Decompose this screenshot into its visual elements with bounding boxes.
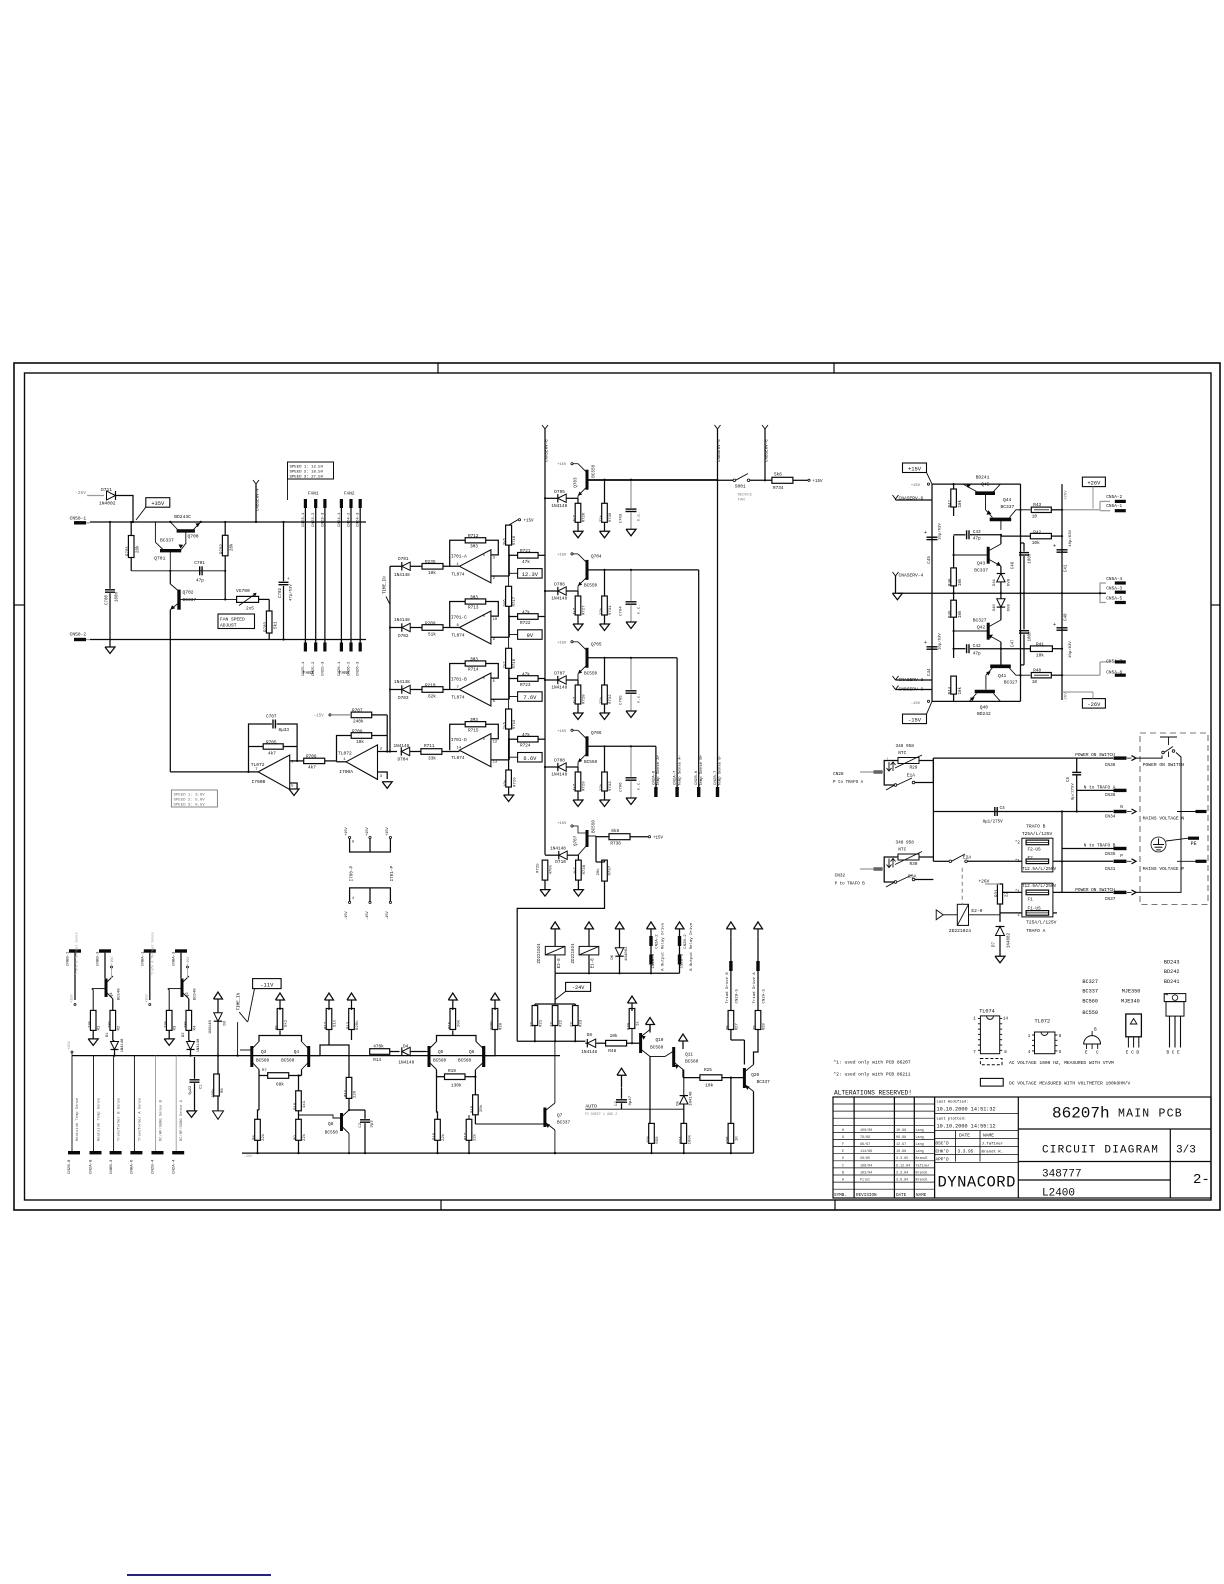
svg-text:Temp Sense B+: Temp Sense B+ (700, 754, 704, 786)
svg-text:FAN SPEED: FAN SPEED (220, 617, 245, 623)
svg-text:D40: D40 (993, 604, 997, 612)
-15V box (903, 714, 927, 724)
svg-text:POWER ON SWITCH: POWER ON SWITCH (1075, 888, 1115, 893)
svg-text:100n: 100n (1029, 553, 1033, 564)
svg-text:8μ/275V: 8μ/275V (1071, 783, 1076, 800)
svg-text:n.c.: n.c. (638, 693, 642, 703)
legend AC voltage box (980, 1059, 1002, 1065)
wire triac to Q20 (731, 1039, 737, 1041)
svg-text:MJE340: MJE340 (1121, 999, 1140, 1005)
svg-text:C3: C3 (615, 1101, 619, 1106)
svg-text:R22: R22 (560, 1019, 564, 1027)
svg-text:-15V: -15V (314, 715, 325, 719)
svg-text:DC VOLTAGE MEASURED WITH VOLTM: DC VOLTAGE MEASURED WITH VOLTMETER 100kO… (1009, 1081, 1131, 1087)
svg-text:R7: R7 (262, 1069, 267, 1073)
svg-text:BC550: BC550 (584, 583, 598, 588)
diode D6 1N4002 (615, 922, 624, 929)
fan line CN24-1/CN26-1 (340, 500, 342, 651)
svg-text:T12.5A/L/250V: T12.5A/L/250V (1022, 867, 1057, 872)
svg-text:CN2A-3: CN2A-3 (652, 953, 656, 968)
svg-text:CN8A-1: CN8A-1 (142, 951, 146, 966)
wire Q6 collector (484, 1045, 495, 1056)
svg-text:C702: C702 (279, 587, 283, 598)
svg-text:+15V: +15V (557, 730, 567, 734)
+15V arrow above Q11 (679, 1034, 688, 1041)
svg-text:20k: 20k (136, 545, 141, 553)
svg-text:CN58-1: CN58-1 (70, 515, 87, 521)
svg-text:CN5A-1: CN5A-1 (1106, 504, 1122, 509)
svg-text:TL072: TL072 (338, 750, 352, 756)
svg-text:E1-0: E1-0 (592, 958, 596, 969)
svg-text:CN5A-2: CN5A-2 (1106, 495, 1122, 500)
svg-text:6V8: 6V8 (1008, 604, 1012, 612)
capacitor C45 (927, 536, 938, 538)
ground C705 (626, 711, 636, 718)
svg-text:0μ47: 0μ47 (629, 1095, 633, 1105)
resistor R9 22k (296, 1119, 302, 1140)
svg-text:CN5A-3: CN5A-3 (1106, 586, 1122, 591)
svg-text:POWER ON SWITCH: POWER ON SWITCH (1143, 762, 1185, 768)
svg-text:4k7: 4k7 (268, 751, 276, 756)
resistor R22 22 (552, 1006, 558, 1026)
svg-text:R703: R703 (265, 621, 269, 632)
wire stage chain R716-R719 (508, 545, 510, 586)
svg-text:D701: D701 (398, 557, 409, 562)
svg-text:R1: R1 (98, 1025, 102, 1030)
svg-text:3k6: 3k6 (502, 537, 507, 545)
svg-text:D702: D702 (398, 634, 409, 639)
svg-text:TL074: TL074 (979, 1009, 995, 1015)
resistor R731 22k (602, 596, 608, 615)
capacitor C705 n.c. (626, 690, 637, 692)
svg-text:SPEED 1: 3.6V: SPEED 1: 3.6V (174, 794, 206, 798)
svg-text:R717: R717 (513, 596, 517, 606)
+26V rail (1061, 484, 1063, 700)
svg-text:SPEED 3: 27.5V: SPEED 3: 27.5V (290, 476, 324, 480)
svg-text:D710: D710 (555, 860, 566, 865)
svg-text:DC/HF/SGNG Sense B: DC/HF/SGNG Sense B (159, 1099, 164, 1141)
op-amp U-I701-C (459, 611, 491, 644)
svg-text:R737: R737 (609, 865, 613, 875)
svg-text:R41: R41 (1036, 643, 1044, 648)
resistor column rail (953, 507, 955, 516)
svg-text:-15V: -15V (908, 717, 922, 723)
section tick top-right (833, 363, 835, 373)
fan main bus wire (90, 521, 366, 523)
svg-text:FAN3: FAN3 (303, 671, 314, 676)
svg-text:R44: R44 (949, 686, 953, 694)
resistor R17 22k (466, 1119, 472, 1140)
resistor R729 4k7 (575, 772, 581, 791)
svg-text:CN8B-3: CN8B-3 (110, 1159, 114, 1174)
svg-text:B C E: B C E (1167, 1051, 1181, 1056)
fan lower bus wire (90, 639, 366, 641)
svg-text:10k: 10k (646, 1135, 651, 1143)
svg-text:1N4148: 1N4148 (551, 773, 567, 778)
svg-text:Q41: Q41 (998, 673, 1007, 679)
wire R737 down to relay bus (517, 881, 604, 1041)
svg-text:5k6: 5k6 (774, 473, 782, 478)
svg-text:*2: *2 (1015, 840, 1021, 845)
svg-text:79/99: 79/99 (860, 1135, 870, 1140)
svg-text:Trafo A Thermal Sense: Trafo A Thermal Sense (151, 932, 156, 975)
resistor R12 51k (326, 1009, 332, 1030)
svg-text:REVISION: REVISION (856, 1193, 877, 1198)
svg-text:R14: R14 (373, 1058, 381, 1063)
svg-text:10μ/63V: 10μ/63V (938, 633, 943, 650)
svg-text:TL074: TL074 (451, 696, 465, 701)
svg-text:1N4148: 1N4148 (398, 1061, 414, 1066)
transistor Q6 BC560 (482, 1046, 485, 1067)
ground R732 (600, 713, 610, 720)
+15V box (903, 463, 927, 473)
svg-text:MJE350: MJE350 (1122, 989, 1141, 995)
svg-text:D706: D706 (554, 583, 565, 588)
svg-text:▸: ▸ (483, 738, 485, 742)
svg-text:R50: R50 (656, 1136, 660, 1144)
fan line CN24-2/CN26-2 (350, 500, 352, 651)
svg-text:Q706: Q706 (591, 731, 602, 736)
section tick bottom-left (440, 1200, 442, 1210)
svg-text:↑: ↑ (887, 757, 889, 762)
svg-text:Trafo B Thermal Sense: Trafo B Thermal Sense (75, 932, 80, 975)
wire R18 to Q7 base (475, 1123, 545, 1125)
svg-text:P to TRAFO A: P to TRAFO A (833, 781, 864, 785)
svg-text:C704: C704 (620, 606, 624, 616)
svg-text:47p: 47p (973, 537, 981, 542)
svg-text:+15V: +15V (557, 641, 567, 645)
svg-text:+35V: +35V (151, 501, 165, 507)
svg-text:BC550: BC550 (592, 464, 597, 477)
svg-text:BC560: BC560 (650, 1045, 664, 1050)
svg-text:R720: R720 (514, 777, 518, 787)
voltage box 7.6V (518, 692, 543, 702)
wire F1 lower loop (1000, 912, 1022, 914)
switch E1A (894, 784, 897, 787)
svg-text:BC560: BC560 (433, 1058, 447, 1063)
svg-text:CNBSERV-5: CNBSERV-5 (718, 439, 722, 462)
svg-text:14: 14 (1003, 1018, 1009, 1022)
svg-text:8: 8 (352, 841, 354, 845)
wire I700A input (337, 761, 347, 763)
svg-text:47k: 47k (522, 733, 530, 738)
sense line CN2B-8 (71, 1056, 73, 1151)
svg-text:OSC'D: OSC'D (936, 1142, 950, 1147)
svg-text:R24: R24 (679, 1136, 683, 1144)
svg-text:D1: D1 (106, 1032, 110, 1037)
top rail wire (932, 483, 1021, 485)
svg-text:1N4148: 1N4148 (551, 504, 567, 509)
svg-text:C701: C701 (194, 561, 205, 566)
svg-text:R13: R13 (347, 1021, 351, 1029)
svg-text:Triad Drive B: Triad Drive B (725, 972, 730, 1004)
svg-text:96/97: 96/97 (860, 1142, 870, 1147)
svg-text:CN2A-4: CN2A-4 (172, 1159, 176, 1174)
svg-text:AC VOLTAGE 1000 HZ, MEASURED W: AC VOLTAGE 1000 HZ, MEASURED WITH VTVM (1009, 1060, 1114, 1066)
resistor R738 (576, 860, 582, 880)
svg-text:CN2A-2: CN2A-2 (656, 934, 660, 949)
ground C703 (626, 529, 636, 536)
svg-text:Heatsink Temp Sense: Heatsink Temp Sense (75, 1097, 80, 1141)
title block outline (833, 1097, 1211, 1198)
fan line CN23-2/CN25-2 (315, 500, 317, 651)
power pins I700-P (350, 839, 391, 852)
resistor R728 4k7 (575, 685, 581, 704)
TO-92 package drawing (1084, 1036, 1101, 1044)
voltage box 6.6V (518, 753, 543, 763)
resistor R209 (422, 625, 443, 631)
ground R731 (600, 624, 610, 631)
svg-text:Tafiner: Tafiner (916, 1163, 930, 1168)
resistor R43 current sense (1031, 507, 1051, 512)
svg-text:10k: 10k (1036, 654, 1044, 659)
relay drive CN2B-2 (675, 922, 684, 929)
svg-text:Q7: Q7 (557, 1113, 563, 1118)
svg-text:CN2B-7: CN2B-7 (714, 770, 718, 785)
op-amp U-I701-B (459, 673, 491, 706)
wire Q7 emitter to bus (554, 1130, 556, 1153)
svg-text:R5: R5 (276, 1025, 280, 1030)
svg-text:12.97: 12.97 (896, 1143, 906, 1147)
ground C704 (626, 622, 636, 629)
op-amp U-I700A TL072 (346, 745, 378, 780)
svg-text:10.96: 10.96 (896, 1150, 906, 1154)
flag CNBSERV-5 middle (715, 425, 718, 429)
svg-text:FAN2: FAN2 (344, 492, 355, 497)
svg-text:R235: R235 (425, 560, 436, 565)
svg-text:47μ/63V: 47μ/63V (289, 584, 294, 601)
svg-text:3.3.94: 3.3.94 (896, 1171, 908, 1175)
svg-text:75: 75 (726, 1025, 730, 1030)
diff pair 2 top bracket (437, 1036, 477, 1042)
capacitor C44 (927, 646, 938, 648)
svg-text:Brandl R.: Brandl R. (982, 1149, 1004, 1154)
svg-text:R10: R10 (294, 1102, 298, 1110)
zener D41 (997, 574, 1005, 582)
svg-text:+: + (1053, 622, 1056, 628)
svg-text:ALTERATIONS RESERVED!: ALTERATIONS RESERVED! (834, 1090, 912, 1097)
svg-text:R734: R734 (773, 486, 784, 491)
resistor R11 220 (346, 1077, 352, 1098)
svg-text:D708: D708 (554, 759, 565, 764)
svg-text:1K: 1K (735, 1136, 739, 1141)
svg-text:C47: C47 (1012, 639, 1016, 647)
svg-text:E2-0: E2-0 (971, 908, 982, 914)
svg-text:3M3: 3M3 (470, 544, 478, 549)
svg-text:09.98: 09.98 (896, 1136, 906, 1140)
svg-text:SYMB.: SYMB. (834, 1193, 847, 1198)
svg-text:R713: R713 (468, 606, 479, 611)
resistor R24 100k (681, 1123, 687, 1143)
svg-text:3M3: 3M3 (470, 595, 478, 600)
svg-text:C41: C41 (1065, 564, 1069, 572)
svg-text:3.6.84: 3.6.84 (896, 1179, 908, 1183)
fan line CN24-3/CN26-3 (359, 500, 361, 651)
svg-text:10: 10 (1032, 680, 1038, 685)
svg-text:10.10.2000 14:51:32: 10.10.2000 14:51:32 (937, 1107, 996, 1113)
capacitor C704 n.c. (626, 601, 637, 603)
wire temp sense CN2B-7 (717, 480, 719, 796)
svg-text:ZD221024: ZD221024 (949, 928, 971, 934)
svg-text:200k: 200k (490, 1020, 495, 1030)
svg-text:1N4148: 1N4148 (581, 1050, 597, 1055)
wire E2A dashed link (961, 868, 963, 905)
svg-text:SPEED 2: 5.0V: SPEED 2: 5.0V (174, 799, 206, 803)
resistor R706 (304, 758, 325, 763)
switch E3A (894, 881, 897, 884)
svg-text:CN8A-3: CN8A-3 (173, 951, 177, 966)
wire P line to CN31 (1053, 860, 1113, 862)
svg-text:130k: 130k (451, 1084, 462, 1089)
diode D3 1N4148 (214, 1013, 222, 1021)
svg-text:TRAFO A: TRAFO A (1026, 928, 1046, 934)
resistor R723 47k (518, 676, 539, 682)
resistor R725 (542, 860, 548, 880)
bottom bus wire right part (242, 1152, 754, 1154)
svg-text:R28: R28 (763, 1023, 767, 1031)
flag CNASERV-6 (893, 495, 896, 499)
svg-text:D705: D705 (554, 490, 565, 495)
svg-text:8μ1/275V: 8μ1/275V (983, 819, 1004, 824)
svg-text:R702: R702 (221, 543, 225, 554)
switch E2A (949, 860, 952, 863)
svg-text:2-: 2- (1193, 1172, 1210, 1188)
svg-text:D: D (842, 1157, 844, 1161)
transistor Q702 BC337 (177, 590, 180, 610)
svg-text:22k: 22k (599, 783, 604, 791)
svg-text:T25A/L/125V: T25A/L/125V (1022, 831, 1053, 837)
transistor Q1 BC548 (105, 979, 108, 998)
svg-text:-15V: -15V (386, 911, 390, 920)
capacitor C702 (279, 581, 289, 583)
svg-text:C40: C40 (1065, 613, 1069, 621)
resistor R7 68k (268, 1073, 289, 1079)
connector CN8A-3 (175, 949, 187, 952)
resistor R47 (951, 489, 957, 507)
svg-text:R732: R732 (609, 694, 613, 704)
transistor Q10 BC560 (639, 1033, 642, 1053)
sense line CN2A-8 (93, 1056, 95, 1151)
svg-text:1k1: 1k1 (302, 1100, 307, 1108)
svg-text:C2: C2 (359, 1122, 363, 1127)
resistor R6 100k (214, 1074, 220, 1096)
capacitor C40 (1057, 627, 1068, 629)
svg-text:Q20: Q20 (751, 1073, 759, 1078)
connector CN8B-1 (69, 949, 81, 952)
svg-text:N to TRAFO B: N to TRAFO B (1084, 844, 1116, 849)
sense line CN2B-4 (155, 1056, 157, 1151)
svg-text:+15V: +15V (908, 466, 922, 472)
svg-text:12.3V: 12.3V (522, 572, 539, 578)
svg-text:Q705: Q705 (591, 642, 602, 647)
capacitor C3 0u47 (616, 1099, 627, 1101)
resistor R708 (351, 733, 372, 739)
svg-text:22: 22 (1006, 891, 1010, 897)
svg-text:BD243: BD243 (1164, 959, 1180, 965)
resistor R31 (999, 883, 1001, 892)
transistor Q7 BC337 (543, 1108, 546, 1128)
svg-text:+15V: +15V (111, 956, 115, 965)
svg-text:1k: 1k (636, 1021, 641, 1026)
svg-text:Q10: Q10 (656, 1038, 664, 1043)
resistor R23 22 (573, 1006, 579, 1026)
wire Q20 emitter to bus (753, 1092, 755, 1154)
svg-text:S001: S001 (735, 484, 746, 490)
svg-text:CN2B-4: CN2B-4 (152, 1159, 156, 1174)
resistor R716 3k6 (506, 525, 512, 545)
svg-text:R719: R719 (513, 719, 517, 729)
wire relay bus to resistors (554, 973, 556, 1004)
ground R730 (600, 531, 610, 538)
wire Q10 emitter down (649, 1057, 651, 1124)
up arrow above D3 (214, 992, 223, 999)
svg-text:CN24-1: CN24-1 (338, 512, 342, 527)
transistor Q2 BC548 (181, 979, 184, 998)
resistor R40 current sense (1031, 673, 1051, 678)
svg-text:D704: D704 (398, 757, 409, 762)
svg-text:1N4148: 1N4148 (121, 1038, 125, 1052)
svg-text:CN31: CN31 (1105, 867, 1116, 872)
svg-text:APP'D: APP'D (936, 1157, 950, 1162)
svg-text:Triad Drive A: Triad Drive A (752, 972, 757, 1004)
svg-text:CIRCUIT DIAGRAM: CIRCUIT DIAGRAM (1042, 1145, 1159, 1157)
ground below R1 (88, 1039, 98, 1046)
resistor R44 (951, 676, 957, 694)
svg-text:Q3: Q3 (261, 1050, 267, 1055)
svg-text:-26V: -26V (1065, 692, 1069, 702)
op-amp U-I701-A (459, 550, 491, 583)
capacitor C2 3u3 (360, 1119, 370, 1121)
svg-text:4k7: 4k7 (573, 867, 578, 875)
svg-text:TL074: TL074 (451, 572, 465, 577)
svg-text:3μ3: 3μ3 (371, 1120, 375, 1128)
mid output line (897, 592, 1106, 594)
svg-text:BD241: BD241 (1164, 979, 1180, 985)
resistor R732 22k (602, 685, 608, 704)
svg-text:R6: R6 (221, 1088, 225, 1093)
feedback wire (450, 664, 466, 690)
svg-text:R733: R733 (609, 781, 613, 791)
wire NTC R30 loop (884, 857, 898, 882)
svg-text:20k: 20k (479, 1104, 484, 1112)
svg-text:D3: D3 (224, 1020, 228, 1025)
svg-text:10k: 10k (503, 779, 508, 787)
svg-text:10μ/63V: 10μ/63V (1068, 641, 1073, 658)
resistor R718 2k2 (506, 648, 512, 668)
svg-text:100k: 100k (687, 1134, 692, 1144)
svg-text:-26V: -26V (244, 1155, 253, 1159)
ground R733 (600, 800, 610, 807)
capacitor C4 (994, 807, 996, 816)
voltage box 12.3V (518, 569, 543, 579)
fan line CN23-1/CN25-1 (304, 500, 306, 651)
svg-text:CN2B-8: CN2B-8 (68, 1159, 72, 1174)
svg-text:47k: 47k (522, 560, 530, 565)
svg-text:CN8B-1: CN8B-1 (67, 951, 71, 966)
capacitor C703 n.c. (626, 508, 637, 510)
svg-text:A Output Relay Drive: A Output Relay Drive (661, 922, 666, 971)
svg-text:J.Tafiner: J.Tafiner (982, 1141, 1004, 1146)
svg-text:+15V: +15V (68, 1041, 72, 1050)
wire power-on-switch line (933, 757, 1113, 759)
svg-text:47p: 47p (973, 651, 981, 656)
svg-text:DC/HF/SGNG Sense A: DC/HF/SGNG Sense A (179, 1099, 184, 1141)
svg-text:3M3: 3M3 (470, 657, 478, 662)
resistor R711 (421, 749, 442, 755)
svg-text:12: 12 (493, 741, 498, 745)
svg-text:NAME: NAME (916, 1193, 927, 1198)
ground below C700 (105, 647, 115, 654)
